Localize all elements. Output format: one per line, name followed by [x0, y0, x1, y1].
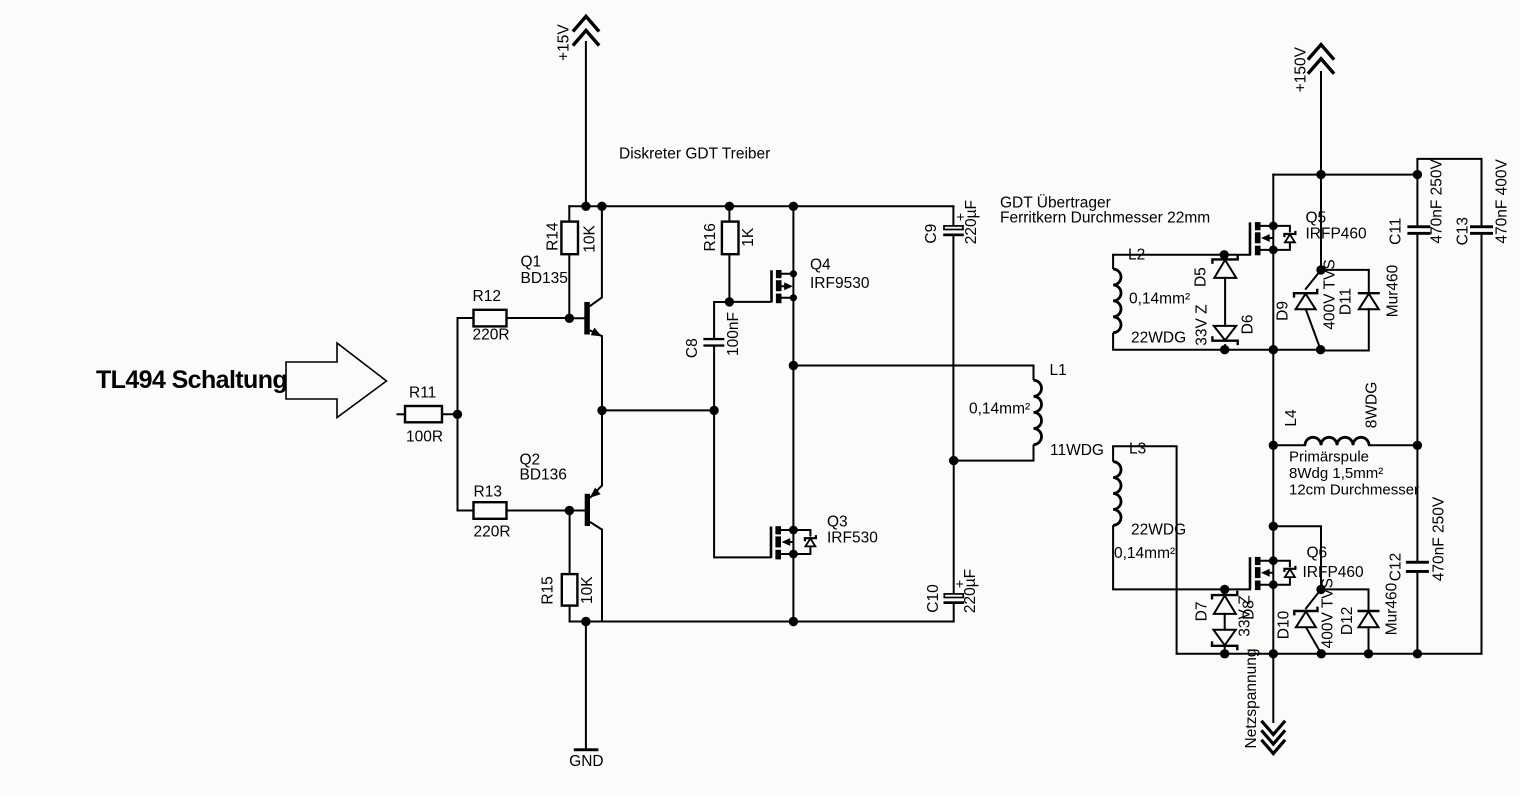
- junction Q1 base node: [565, 314, 574, 323]
- junction Q1 collector at rail: [597, 202, 606, 211]
- svg-text:11WDG: 11WDG: [1050, 442, 1104, 459]
- wire half-bridge vertical: [1272, 175, 1274, 654]
- wire D12 branch bottom: [1368, 627, 1370, 654]
- svg-text:R11: R11: [409, 385, 436, 402]
- svg-text:D12: D12: [1339, 607, 1356, 635]
- wire D9 top lead: [1306, 270, 1321, 289]
- svg-text:0,14mm²: 0,14mm²: [969, 401, 1030, 418]
- svg-text:220µF: 220µF: [963, 200, 980, 244]
- wire C13 down to bottom rail: [1481, 235, 1483, 654]
- svg-text:+15V: +15V: [555, 24, 572, 61]
- zener diode D5 33V: [1193, 255, 1238, 346]
- svg-text:L4: L4: [1283, 409, 1300, 427]
- junction D8 at bottom rail: [1220, 649, 1229, 658]
- svg-text:D6: D6: [1239, 314, 1256, 334]
- svg-text:0,14mm²: 0,14mm²: [1114, 545, 1175, 562]
- junction R11 input node: [453, 410, 462, 419]
- MOSFET Q6 IRFP460: [1250, 545, 1364, 591]
- svg-text:470nF 250V: 470nF 250V: [1429, 159, 1446, 244]
- wire D10 anode lead: [1306, 627, 1321, 654]
- wire R16 to rail: [728, 206, 730, 221]
- wire C10 to bottom rail: [953, 604, 955, 622]
- wire input vertical: [457, 318, 459, 511]
- resistor R11 100R: [405, 385, 443, 446]
- junction emitter node: [597, 406, 606, 415]
- svg-text:IRFP460: IRFP460: [1306, 226, 1368, 243]
- junction L2 bottom at half-bridge: [1269, 345, 1278, 354]
- wire R12 left: [458, 317, 474, 319]
- junction C9 C10 L1 node: [949, 456, 958, 465]
- svg-text:33V Z: 33V Z: [1193, 304, 1210, 345]
- svg-text:Ferritkern Durchmesser 22mm: Ferritkern Durchmesser 22mm: [1000, 210, 1210, 227]
- svg-text:8Wdg 1,5mm²: 8Wdg 1,5mm²: [1289, 465, 1383, 482]
- svg-text:D9: D9: [1274, 301, 1291, 321]
- wire L2 top to Q5 gate: [1113, 254, 1250, 256]
- resistor R13 220R: [474, 484, 511, 541]
- wire L1 node to C10: [953, 461, 955, 594]
- svg-text:Q5: Q5: [1306, 210, 1327, 227]
- junction Q3 source stub: [789, 550, 798, 559]
- svg-text:BD135: BD135: [521, 270, 568, 287]
- wire main vertical Q4/Q3: [792, 206, 794, 621]
- transistor Q2 BD136: [520, 452, 603, 530]
- junction C11 at rail: [1413, 170, 1422, 179]
- wire Q4 gate: [729, 301, 770, 303]
- svg-text:Q6: Q6: [1307, 545, 1328, 562]
- wire Q2 base: [569, 510, 584, 512]
- svg-text:C9: C9: [923, 224, 940, 244]
- junction D5 at L2 top: [1220, 250, 1229, 259]
- wire C12 to bottom rail: [1416, 573, 1418, 654]
- junction R16 at rail: [725, 202, 734, 211]
- MOSFET Q4 IRF9530: [772, 257, 870, 304]
- wire D8 bottom stub: [1224, 646, 1226, 654]
- supply arrow Netzspannung: [1263, 722, 1285, 754]
- wire R14 to rail: [568, 206, 570, 221]
- zener diode D6 33V: [1212, 314, 1256, 345]
- wire L3 right vertical: [1113, 446, 1177, 654]
- junction Q4 at rail: [789, 202, 798, 211]
- svg-text:220R: 220R: [473, 327, 510, 344]
- svg-text:IRF530: IRF530: [827, 530, 878, 547]
- wire R15 top: [569, 511, 571, 575]
- svg-text:Primärspule: Primärspule: [1289, 449, 1369, 466]
- junction GND stem at rail: [581, 617, 590, 626]
- svg-text:0,14mm²: 0,14mm²: [1129, 291, 1190, 308]
- wire C8 bottom to Q3 gate: [714, 347, 770, 558]
- wire R12 right: [507, 317, 570, 319]
- wire Netzspannung stem: [1272, 654, 1274, 722]
- wire D12 branch top: [1321, 589, 1369, 611]
- svg-text:22WDG: 22WDG: [1131, 522, 1186, 539]
- inductor L2 22WDG: [1113, 247, 1190, 350]
- wire C9 from rail: [952, 206, 954, 226]
- svg-text:GND: GND: [569, 753, 603, 770]
- wire output node to L1: [793, 365, 1033, 367]
- junction Q6 clamp branch node: [1269, 522, 1278, 531]
- svg-text:D10: D10: [1275, 610, 1292, 639]
- svg-text:C13: C13: [1454, 217, 1471, 245]
- capacitor C8 100nF: [684, 312, 742, 358]
- junction Q2 base node: [565, 506, 574, 515]
- junction D10 D12 top node: [1316, 585, 1325, 594]
- wire C11 drop: [1416, 175, 1418, 226]
- ground GND: [569, 748, 603, 770]
- junction driver output node: [789, 361, 798, 370]
- svg-text:D5: D5: [1193, 267, 1210, 287]
- junction Q3 drain stub: [789, 526, 798, 535]
- wire node to C8: [714, 301, 729, 303]
- zener diode D7 33V: [1194, 591, 1238, 622]
- wire C9 to L1 node: [952, 236, 954, 461]
- wire Q2 collector down: [601, 530, 603, 622]
- wire L4 left lead: [1273, 444, 1305, 446]
- svg-text:L3: L3: [1129, 441, 1146, 458]
- svg-text:10K: 10K: [582, 224, 599, 252]
- wire R16 to node: [728, 254, 730, 302]
- svg-text:L1: L1: [1050, 362, 1067, 379]
- wire emitter node to C8 node: [602, 409, 714, 411]
- junction L4 right C11 C12 node: [1413, 441, 1422, 450]
- resistor R12 220R: [473, 288, 510, 344]
- junction C12 at bottom rail: [1413, 649, 1422, 658]
- wire top rail +15V: [569, 205, 953, 207]
- svg-text:D7: D7: [1194, 601, 1211, 621]
- svg-text:22WDG: 22WDG: [1131, 330, 1186, 347]
- junction +15V at rail: [581, 202, 590, 211]
- svg-text:470nF 250V: 470nF 250V: [1430, 496, 1447, 581]
- diode D11 Mur460: [1337, 264, 1401, 317]
- wire Q6 clamp branch: [1273, 526, 1321, 589]
- svg-text:220µF: 220µF: [962, 569, 979, 613]
- junction Netzspannung at bottom rail: [1269, 649, 1278, 658]
- svg-text:470nF 400V: 470nF 400V: [1493, 159, 1510, 244]
- junction D7 at L3 bottom: [1220, 585, 1229, 594]
- wire D5 top stub: [1224, 255, 1226, 260]
- wire bottom rail Netzspannung: [1178, 653, 1482, 655]
- wire R13 left: [458, 510, 474, 512]
- junction R16 C8 Q4 gate node: [725, 297, 734, 306]
- junction D10 at bottom rail: [1317, 649, 1326, 658]
- svg-text:C11: C11: [1387, 218, 1404, 245]
- wire top right rail: [1273, 174, 1417, 176]
- svg-text:R14: R14: [544, 222, 561, 251]
- wire L3 bottom to Q6 gate: [1113, 588, 1250, 590]
- junction +150V at rail: [1316, 170, 1325, 179]
- svg-text:Q4: Q4: [810, 257, 831, 274]
- svg-text:R12: R12: [473, 288, 501, 305]
- wire D11 branch top: [1321, 270, 1369, 293]
- svg-text:Q3: Q3: [827, 514, 848, 531]
- svg-text:C12: C12: [1387, 553, 1404, 581]
- wire D9 anode lead: [1306, 309, 1321, 349]
- capacitor C11 470nF 250V: [1387, 159, 1445, 245]
- wire D7 to D8: [1224, 614, 1226, 630]
- junction D9 D11 top node: [1316, 265, 1325, 274]
- svg-text:C8: C8: [684, 338, 701, 358]
- svg-text:BD136: BD136: [520, 467, 567, 484]
- wire Q1/Q2 emitter vertical: [601, 336, 603, 485]
- svg-text:1K: 1K: [740, 227, 757, 247]
- junction Q4 source stub: [790, 270, 797, 277]
- junction Q3 source at rail: [789, 617, 798, 626]
- wire R11 stub: [398, 413, 406, 415]
- junction D6 at L2 bottom: [1220, 345, 1229, 354]
- wire C11 to L4 node: [1416, 235, 1418, 561]
- junction Q4 drain stub: [790, 294, 797, 301]
- svg-text:R13: R13: [474, 484, 502, 501]
- supply +150V: [1309, 45, 1333, 175]
- wire D7 top stub: [1224, 589, 1226, 595]
- capacitor C10 220uF polarized: [925, 569, 979, 613]
- capacitor C12 470nF 250V: [1387, 496, 1447, 581]
- junction C8 bottom node: [709, 406, 718, 415]
- svg-text:Diskreter GDT Treiber: Diskreter GDT Treiber: [619, 146, 770, 163]
- svg-text:IRF9530: IRF9530: [810, 275, 870, 292]
- wire D9 cell top vertical: [1320, 175, 1322, 270]
- zener diode D8 33V: [1212, 595, 1257, 650]
- svg-text:Mur460: Mur460: [1384, 264, 1401, 317]
- diode D12 Mur460: [1339, 582, 1400, 635]
- capacitor C13 470nF 400V: [1454, 159, 1510, 246]
- svg-text:D11: D11: [1337, 288, 1354, 315]
- wire D11 branch bottom: [1321, 309, 1369, 350]
- wire R14 to Q1 base: [568, 254, 570, 318]
- wire bottom rail GND: [570, 621, 954, 623]
- junction D9 anode node: [1316, 345, 1325, 354]
- transistor Q1 BD135: [521, 254, 602, 337]
- svg-text:C10: C10: [925, 584, 942, 613]
- wire D6 bottom stub: [1224, 345, 1226, 350]
- MOSFET Q5 IRFP460: [1250, 210, 1367, 256]
- svg-text:220R: 220R: [474, 524, 511, 541]
- svg-text:8WDG: 8WDG: [1363, 382, 1380, 429]
- inductor L4 primary 8WDG: [1283, 382, 1419, 499]
- supply +15V: [574, 16, 598, 206]
- svg-text:Mur460: Mur460: [1383, 582, 1400, 635]
- wire C8 top: [713, 302, 715, 338]
- wire C13 link over rail: [1417, 159, 1481, 225]
- junction D12 at bottom rail: [1364, 649, 1373, 658]
- svg-text:Q1: Q1: [521, 254, 542, 271]
- inductor L3 22WDG: [1113, 441, 1186, 590]
- wire D5 to D6: [1224, 278, 1226, 326]
- wire GND stem: [585, 622, 587, 749]
- svg-text:12cm Durchmesser: 12cm Durchmesser: [1289, 482, 1419, 499]
- svg-text:+150V: +150V: [1293, 46, 1310, 92]
- resistor R15 10K: [539, 574, 596, 606]
- svg-text:100nF: 100nF: [725, 312, 742, 356]
- svg-text:TL494 Schaltung: TL494 Schaltung: [96, 366, 287, 394]
- wire Q1 collector to rail: [601, 206, 603, 297]
- MOSFET Q3 IRF530: [771, 514, 878, 560]
- annotation arrow pointing to R11: [286, 343, 387, 418]
- svg-text:10K: 10K: [579, 576, 596, 604]
- TVS diode D9 400V: [1274, 259, 1338, 329]
- junction Q5 source stub: [1269, 246, 1278, 255]
- svg-text:Netzspannung: Netzspannung: [1243, 649, 1260, 749]
- junction Q5 drain stub: [1269, 222, 1278, 231]
- wire R11 to node: [442, 413, 458, 415]
- svg-text:R15: R15: [539, 576, 556, 604]
- wire R15 bottom: [569, 606, 571, 622]
- resistor R16 1K: [702, 222, 757, 255]
- junction L4 left node: [1269, 441, 1278, 450]
- TVS diode D10 400V: [1275, 578, 1336, 648]
- resistor R14 10K: [544, 222, 598, 255]
- capacitor C9 220uF polarized: [923, 200, 980, 244]
- wire D10 top lead: [1306, 589, 1321, 608]
- svg-text:100R: 100R: [406, 429, 443, 446]
- junction Q6 drain stub: [1269, 556, 1278, 565]
- svg-text:D8: D8: [1240, 600, 1257, 620]
- svg-text:R16: R16: [702, 223, 719, 251]
- wire R13 right: [507, 510, 570, 512]
- junction Q6 source stub: [1269, 580, 1278, 589]
- svg-text:L2: L2: [1128, 247, 1145, 264]
- wire L2 bottom to half-bridge: [1113, 349, 1321, 351]
- wire L4 right lead: [1369, 444, 1417, 446]
- wire Q1 base: [569, 317, 584, 319]
- inductor L1 11WDG: [954, 362, 1104, 461]
